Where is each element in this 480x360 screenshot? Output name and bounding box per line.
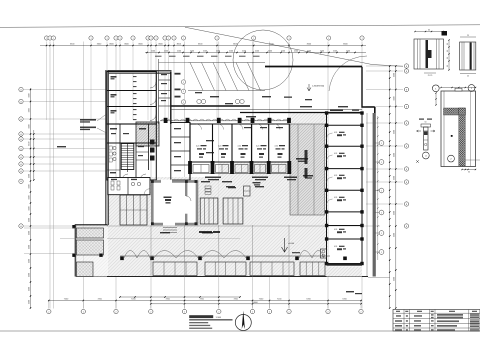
svg-text:25: 25: [467, 35, 469, 37]
corridor labels x176: [175, 73, 181, 75]
plan label 详6.6: [199, 231, 212, 233]
svg-text:1:100: 1:100: [216, 317, 222, 319]
svg-text:3300: 3300: [394, 130, 396, 134]
sheet separator line: [0, 330, 480, 332]
svg-text:3300: 3300: [28, 93, 30, 97]
grid line horizontal y=226 (full): [24, 225, 380, 227]
void strip inner line 2: [313, 124, 315, 215]
svg-text:B: B: [406, 169, 407, 171]
grid line vertical short x=46.5: [46, 42, 48, 121]
east wall black columns: [325, 111, 328, 114]
unit divider x=212.5: [212, 124, 214, 162]
garage dividers: [107, 90, 157, 92]
hatched paved area A (west of lobby to arcade): [108, 177, 219, 277]
detail B outer: [460, 42, 476, 70]
east divider y=168.6: [327, 168, 363, 170]
corridor thin line: [171, 109, 362, 111]
shaft rooms x171-190: [171, 123, 190, 181]
grid line vertical x=151.0: [150, 42, 152, 309]
east divider y=146.2: [327, 145, 363, 147]
west step wall to SW corner: [76, 225, 108, 277]
svg-text:2: 2: [48, 311, 49, 313]
ramp hatched strip (north yard): [188, 62, 265, 64]
east unit door arcs: [327, 133, 333, 139]
units shopfront row south: [190, 161, 289, 163]
column x=187.5: [186, 118, 190, 123]
grid line vertical short x=165: [164, 42, 166, 121]
svg-text:2: 2: [361, 311, 362, 313]
corridor circled numbers x182: [181, 80, 185, 84]
dimension chain top A: [40, 45, 366, 47]
grid line vertical x=289.0: [288, 42, 290, 309]
circled no. x=242: [240, 99, 244, 103]
small text above table: [346, 291, 354, 292]
door arcs bottom: [122, 174, 128, 180]
svg-text:4.20: 4.20: [334, 197, 337, 199]
riser symbols above glazing: [205, 186, 211, 188]
svg-text:4.20: 4.20: [238, 146, 241, 148]
void strip label: [296, 158, 308, 160]
grid line vertical short x=269.5: [269, 42, 271, 121]
garage door arcs: [150, 82, 156, 88]
detail C inner line right: [470, 91, 472, 167]
svg-text:3300: 3300: [394, 176, 396, 180]
svg-text:2100: 2100: [268, 50, 272, 52]
garage corridor wall heavy: [170, 72, 172, 125]
east divider y=225.5: [327, 225, 363, 227]
svg-text:4.20: 4.20: [334, 153, 337, 155]
room label: [110, 128, 117, 130]
svg-text:66: 66: [447, 65, 449, 67]
svg-text:4.20: 4.20: [334, 132, 337, 134]
grid line vertical short x=174: [173, 42, 175, 121]
grid bubbles top row: [44, 36, 48, 40]
column x=289: [287, 118, 291, 123]
leader circle right 1: [375, 142, 379, 144]
garage inner dim stack: [133, 76, 137, 77]
toilet fixtures circles: [113, 146, 116, 149]
building west wall (poche): [106, 70, 109, 225]
detail C bubble: [448, 155, 455, 162]
column x=252.5: [251, 118, 255, 123]
svg-text:3300: 3300: [28, 259, 30, 263]
arcade column x=345: [343, 257, 347, 261]
dimension chain bottom B1: [120, 296, 240, 298]
grid leader right y=169: [366, 168, 403, 170]
grid line horizontal y=171: [24, 170, 107, 172]
svg-text:B: B: [406, 89, 407, 91]
grid line vertical x=362.0: [361, 42, 363, 309]
drawing title: [189, 315, 213, 318]
leader notes below units: [205, 177, 221, 179]
central units outline: [190, 124, 289, 162]
lobby openings: [161, 180, 172, 184]
svg-text:2: 2: [184, 311, 185, 313]
note near marker: [292, 252, 300, 253]
leader circle right 2: [375, 161, 379, 163]
terrace planter 1: [77, 228, 104, 238]
corridor strip dividers: [159, 79, 171, 81]
arc near lobby top: [329, 56, 367, 91]
detail A note blob: [442, 31, 448, 36]
corridor heavy wall west: [171, 105, 250, 107]
garage label 2: [111, 94, 117, 96]
svg-text:3300: 3300: [394, 277, 396, 281]
svg-text:2100: 2100: [190, 50, 194, 52]
dimension chain top B: [145, 52, 366, 54]
garage label 1: [111, 76, 117, 78]
svg-text:2100: 2100: [203, 50, 207, 52]
glazing frames east of lobby 1: [200, 198, 218, 224]
east divider y=239: [327, 238, 363, 240]
grid line vertical x=83.3: [82, 42, 84, 309]
arcade arcs: [124, 251, 137, 259]
svg-text:2: 2: [252, 311, 253, 313]
svg-text:2100: 2100: [346, 50, 350, 52]
grid line vertical x=252.5: [252, 42, 254, 309]
grid line horizontal y=101.5: [24, 101, 107, 103]
svg-text:2100: 2100: [320, 50, 324, 52]
east divider y=211.9: [327, 211, 363, 213]
grid line vertical bottom x=269.5: [269, 262, 271, 309]
svg-text:2: 2: [269, 311, 270, 313]
grid line vertical short x=91: [90, 42, 92, 121]
east inner dim mini chain: [377, 116, 379, 260]
lobby wall corner blacks: [151, 180, 154, 183]
dark fixture stack right: [150, 140, 155, 145]
hatched paved area C (void strip surround): [290, 113, 328, 162]
dimension chain bottom B2: [150, 303, 362, 305]
grid line horizontal y=89.5: [24, 89, 107, 91]
detail C left dim: [435, 93, 437, 105]
svg-text:3300: 3300: [28, 184, 30, 188]
detail A bubble: [432, 85, 439, 92]
arcade column x=248: [246, 257, 250, 261]
grid line horizontal y=119: [24, 118, 107, 120]
leader note 2: [80, 127, 96, 129]
toilet divider v1: [119, 124, 121, 180]
svg-text:3300: 3300: [394, 96, 396, 100]
svg-text:3300: 3300: [394, 73, 396, 77]
grid leader right y=106.5: [366, 106, 403, 108]
svg-text:25 25: 25 25: [428, 75, 433, 77]
grid line vertical short x=156: [155, 42, 157, 121]
grid line vertical short x=107: [106, 42, 108, 121]
unit divider x=268.7: [268, 124, 270, 162]
svg-text:2100: 2100: [229, 50, 233, 52]
detail A dims: [415, 31, 443, 33]
dimension chain right A: [389, 66, 391, 308]
detail B dark bar: [470, 43, 472, 70]
svg-text:1.260(H3.900): 1.260(H3.900): [312, 86, 324, 88]
svg-text:4.20: 4.20: [275, 146, 278, 148]
leader circle right 3: [375, 190, 379, 192]
east divider y=190.3: [327, 189, 363, 191]
grid bubbles left column: [19, 87, 23, 91]
grid leader right y=146: [366, 145, 403, 147]
void strip text column: [305, 150, 308, 164]
building south edge: [76, 276, 369, 278]
svg-text:3300: 3300: [28, 142, 30, 146]
svg-text:2: 2: [83, 311, 84, 313]
detail D mullion: [424, 127, 429, 150]
terrace planter 2: [77, 240, 104, 255]
svg-text:3300: 3300: [28, 195, 30, 199]
svg-text:4.20: 4.20: [256, 146, 259, 148]
grid line vertical x=218.8: [218, 42, 220, 309]
unit top door arcs: [196, 124, 202, 130]
svg-text:2100: 2100: [164, 50, 168, 52]
lobby inner partition gray: [185, 181, 187, 196]
stair hatch upper-left: [136, 122, 159, 146]
leader circle right 5: [375, 232, 379, 234]
svg-text:30: 30: [468, 172, 470, 174]
white lobby interior: [153, 183, 196, 224]
arcade column x=297: [295, 257, 299, 261]
mid plan stray labels: [206, 140, 214, 141]
leader line L1 (top): [0, 25, 480, 28]
svg-text:66: 66: [447, 43, 449, 45]
garage corridor wall thin: [158, 72, 160, 125]
grid bubbles bottom row: [48, 301, 50, 309]
svg-text:B: B: [406, 123, 407, 125]
terrace planter 3: [77, 262, 94, 277]
svg-text:3300: 3300: [28, 218, 30, 222]
toilet fixtures rects: [109, 146, 112, 150]
svg-text:B: B: [406, 66, 407, 68]
svg-text:3300: 3300: [28, 287, 30, 291]
grid leader right y=71: [366, 70, 403, 72]
leader circle right 6: [375, 251, 379, 253]
east corridor inner line: [366, 113, 368, 277]
white SE room interior: [330, 242, 367, 276]
terrace lines: [24, 227, 76, 229]
svg-text:3300: 3300: [28, 300, 30, 304]
detail C outer: [441, 91, 476, 167]
lobby entrance steps: [163, 227, 177, 229]
svg-text:2: 2: [289, 311, 290, 313]
svg-text:2100: 2100: [177, 50, 181, 52]
extra density left rooms: [107, 169, 120, 171]
svg-text:50: 50: [425, 121, 427, 123]
svg-text:3300: 3300: [28, 124, 30, 128]
svg-text:60: 60: [428, 29, 430, 31]
dimension chain left A: [30, 88, 32, 308]
grid line vertical short x=217: [216, 42, 218, 121]
svg-text:2100: 2100: [255, 50, 259, 52]
terrace columns: [72, 254, 75, 257]
svg-text:2: 2: [218, 311, 219, 313]
svg-text:2100: 2100: [294, 50, 298, 52]
building east wall: [374, 107, 376, 277]
NE corner walls: [362, 67, 375, 107]
grid line vertical short x=120: [119, 42, 121, 121]
dimension chain right B: [395, 66, 397, 308]
grid line vertical short x=168.5: [168, 42, 170, 121]
shopfront boxes south: [153, 262, 197, 276]
garage label 3: [111, 110, 117, 112]
grid leader right y=66: [366, 65, 403, 67]
lobby walls (gray): [152, 181, 197, 224]
room label: [139, 128, 146, 130]
svg-text:B: B: [406, 182, 407, 184]
grid bubbles right column: [404, 64, 408, 68]
dimension chain bottom A: [48, 300, 362, 302]
toilet divider 1: [107, 142, 157, 144]
svg-text:3300: 3300: [28, 273, 30, 277]
grid leader right y=182: [366, 181, 403, 183]
svg-text:66: 66: [447, 50, 449, 52]
east outer wall textured: [373, 113, 376, 277]
svg-text:3300: 3300: [28, 231, 30, 235]
svg-text:2100: 2100: [151, 50, 155, 52]
glazing frames east of lobby 2: [223, 198, 243, 224]
unit divider x=232: [231, 124, 233, 162]
svg-text:4.20: 4.20: [334, 175, 337, 177]
arcade column x=152: [150, 257, 154, 261]
detail D arrows: [417, 130, 422, 132]
east divider y=125.3: [327, 124, 363, 126]
lobby inner door arcs: [186, 196, 191, 201]
svg-text:2: 2: [116, 311, 117, 313]
svg-text:2100: 2100: [216, 50, 220, 52]
terrace area hatch: [76, 225, 108, 277]
detail D bubble: [422, 152, 429, 159]
svg-text:66: 66: [447, 57, 449, 59]
dim text row below chain B: [155, 56, 162, 57]
svg-text:3300: 3300: [394, 211, 396, 215]
circled no. x=199: [197, 99, 201, 103]
stair mid-left: [121, 144, 134, 170]
grid line horizontal y=134: [24, 133, 107, 135]
svg-text:B: B: [406, 204, 407, 206]
dims between A and B: [448, 40, 450, 70]
toilet divider v3: [148, 124, 150, 170]
room label: [110, 172, 116, 173]
toilet divider v2: [135, 143, 137, 180]
column x=165.6: [164, 118, 168, 123]
texts near top of units: [244, 127, 251, 128]
level leader 1.260: [307, 84, 311, 91]
svg-text:3300: 3300: [28, 206, 30, 210]
grid line horizontal y=139: [24, 138, 107, 140]
corridor heavy wall east: [240, 112, 362, 114]
grid line vertical short x=133: [132, 42, 134, 121]
svg-text:B: B: [406, 226, 407, 228]
dimension chain left B: [33, 130, 35, 180]
arcade column detail left: [320, 249, 326, 258]
grid line horizontal y=164: [24, 163, 107, 165]
arcade column x=200: [198, 257, 202, 261]
grid leader right y=204: [366, 203, 403, 205]
svg-text:2100: 2100: [281, 50, 285, 52]
detail C stipple bands: [444, 108, 466, 115]
svg-text:3300: 3300: [394, 233, 396, 237]
column x=218.8: [217, 118, 221, 123]
kiosk below void strip: [244, 186, 251, 196]
circled no. x=237.5: [235, 99, 239, 103]
grid lines over plaza hatch: [150, 225, 152, 277]
garage block outline: [107, 72, 157, 125]
svg-text:25: 25: [467, 75, 469, 77]
leader note 1: [80, 119, 96, 121]
level marker entrance: [282, 238, 288, 252]
svg-text:2: 2: [328, 311, 329, 313]
hatched void strip center: [290, 124, 325, 215]
leader note small: [57, 146, 66, 147]
svg-text:B: B: [406, 106, 407, 108]
grid leader right y=89.5: [366, 89, 403, 91]
grid line vertical x=328.0: [327, 42, 329, 309]
title notes: [189, 322, 212, 329]
door/window schedule table: [393, 310, 480, 332]
svg-text:3300: 3300: [28, 108, 30, 112]
grid line vertical x=50.0: [49, 42, 51, 309]
detail B bubble: [468, 85, 475, 92]
svg-text:2100: 2100: [242, 50, 246, 52]
leader circle right 4: [375, 212, 379, 214]
grid line vertical x=116.0: [115, 42, 117, 309]
south edge extension line: [368, 277, 390, 279]
arcade line: [120, 255, 330, 257]
void strip inner line 1: [297, 124, 299, 215]
grid line horizontal y=157: [24, 156, 107, 158]
lobby label: [164, 197, 172, 199]
unit divider x=251.5: [251, 124, 253, 162]
east south shopfront band: [327, 264, 363, 266]
building north wall east segment: [265, 66, 362, 68]
svg-text:3300: 3300: [28, 174, 30, 178]
svg-text:24000: 24000: [252, 302, 258, 304]
east wing outline: [327, 113, 363, 264]
grid line vertical x=184.5: [184, 42, 186, 309]
grid line vertical x=53.5: [53, 42, 55, 309]
detail C bottom dims: [462, 169, 476, 171]
svg-text:4.20: 4.20: [196, 146, 199, 148]
arcade column x=122: [120, 257, 124, 261]
grid line vertical short x=253.7: [253, 42, 255, 121]
circled no. x=203.5: [201, 99, 205, 103]
svg-text:4.20: 4.20: [218, 146, 221, 148]
grid line vertical short x=148: [147, 42, 149, 121]
detail A dark Z-bar: [426, 40, 432, 68]
detail C inner dot: [451, 135, 453, 137]
unit wall columns south: [188, 161, 192, 174]
svg-text:3300: 3300: [28, 245, 30, 249]
svg-text:B: B: [406, 71, 407, 73]
grid leader right y=123: [366, 122, 403, 124]
WC room west of lobby: [108, 178, 150, 195]
hatched paved area B (south center): [219, 162, 328, 277]
leader line L2 (diagonal to plan corner): [185, 27, 403, 66]
detail C tab top: [455, 88, 462, 91]
mid-left rooms block: [107, 124, 157, 180]
detail circle around ramp: [233, 30, 293, 90]
svg-text:4.20: 4.20: [334, 229, 337, 231]
svg-text:2: 2: [150, 311, 151, 313]
building north wall west segment (poche): [106, 70, 172, 73]
corridor labels: [246, 116, 256, 117]
grid line horizontal y=148.5: [24, 148, 107, 150]
yard boundary line: [159, 62, 189, 64]
column x=239.6: [238, 118, 242, 123]
scalloped shop doors row: [160, 120, 290, 122]
west shopfront glazing: [120, 195, 147, 225]
detail A outer: [414, 39, 444, 69]
svg-text:2100: 2100: [307, 50, 311, 52]
north arrow: [235, 315, 251, 331]
column x=269.5: [268, 118, 272, 123]
